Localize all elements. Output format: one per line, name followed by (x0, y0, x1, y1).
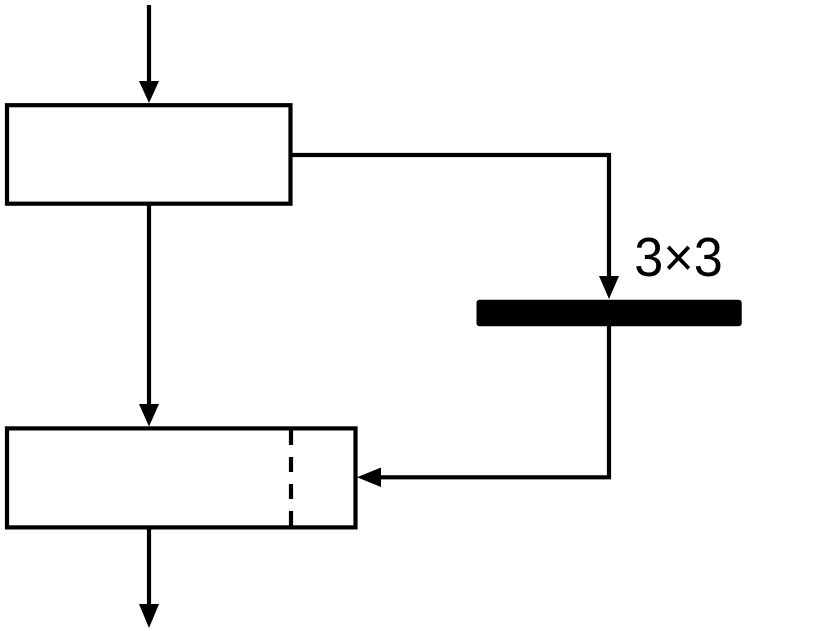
svg-text:3×3: 3×3 (634, 226, 723, 288)
